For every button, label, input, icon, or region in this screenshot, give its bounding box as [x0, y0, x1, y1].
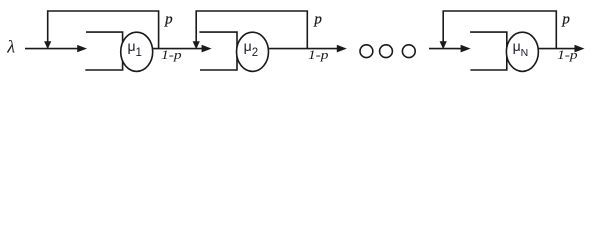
wire: arrival line into queue 1 [25, 48, 79, 50]
arrowhead end of server 2 output [337, 45, 347, 53]
server 2 ellipse [237, 32, 269, 71]
server N ellipse [506, 32, 538, 71]
feedback loop 2 arrowhead onto queue 2 input [193, 41, 200, 49]
arrowhead into queue N [461, 45, 471, 53]
ellipsis circle 2 [380, 45, 393, 58]
svg-text:p: p [561, 11, 570, 27]
svg-text:1-p: 1-p [308, 47, 329, 62]
arrowhead into queue 2 [202, 45, 212, 53]
wire: server 1 output to queue 2 [152, 48, 203, 50]
svg-text:p: p [164, 11, 173, 27]
wire: server 2 output toward dots [267, 48, 338, 50]
svg-text:1-p: 1-p [161, 47, 182, 62]
feedback loop 1: right riser, top run, left drop [48, 11, 159, 49]
feedback loop 2: right riser, top run, left drop [196, 11, 307, 49]
queue 1 buffer box [85, 32, 122, 70]
wire: server N departure output [537, 48, 576, 50]
wire: line into queue N [429, 48, 462, 50]
queue 2 buffer box [199, 32, 237, 70]
ellipsis circle 1 [360, 45, 373, 58]
queue N buffer box [470, 32, 507, 70]
arrowhead into queue 1 [77, 45, 87, 52]
feedback loop 1 arrowhead onto arrival line [44, 41, 51, 49]
svg-text:λ: λ [6, 37, 15, 57]
arrowhead departure [575, 45, 585, 53]
svg-text:p: p [313, 11, 322, 27]
server 1 ellipse [121, 32, 153, 71]
feedback loop N arrowhead onto queue N input [440, 41, 447, 49]
svg-text:1-p: 1-p [557, 47, 578, 62]
feedback loop N: right riser, top run, left drop [443, 11, 556, 49]
ellipsis circle 3 [402, 45, 415, 58]
